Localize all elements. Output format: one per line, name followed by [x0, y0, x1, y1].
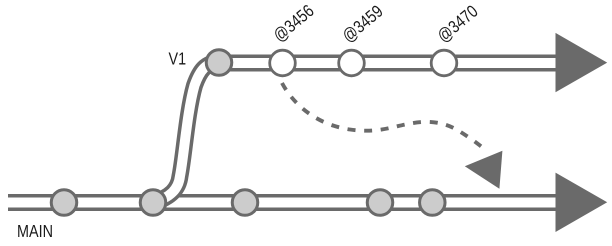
- svg-text:V1: V1: [169, 49, 187, 69]
- svg-text:MAIN: MAIN: [17, 222, 53, 242]
